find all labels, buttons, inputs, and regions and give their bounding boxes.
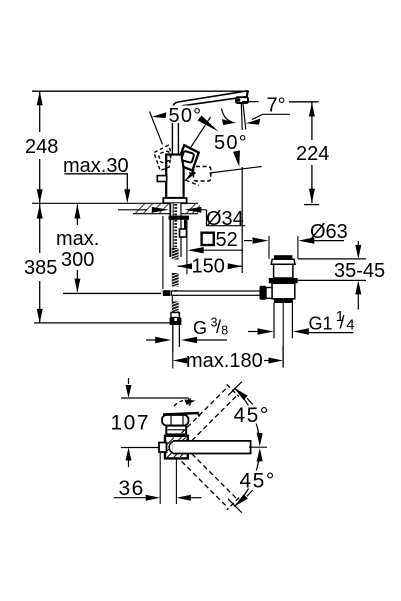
spout bottom edge (178, 97, 245, 109)
svg-text:Ø63: Ø63 (310, 221, 348, 243)
hose connector collar (171, 313, 179, 318)
plan centerline right of bar (249, 446, 267, 448)
faucet body (166, 155, 183, 199)
svg-text:Ø34: Ø34 (206, 208, 244, 230)
extension to max180 (172, 352, 174, 369)
label max.30 down arrow at counter (124, 189, 130, 203)
counter top line (32, 202, 198, 204)
107 bottom reference line (121, 447, 159, 449)
dimension 248 vertical line (39, 91, 41, 132)
Ø63 dimension arrows (244, 240, 252, 242)
Ø34 arrows at counter hole (118, 209, 147, 211)
hose G3/8 nut (170, 318, 182, 326)
right extension line from base plate (186, 217, 188, 274)
svg-text:36: 36 (119, 477, 145, 500)
leader arrow to body right edge (183, 171, 196, 183)
dashed spout -45 (down) (180, 451, 248, 519)
dimension max.300 bottom arrow (74, 279, 80, 293)
svg-text:7°: 7° (267, 95, 286, 117)
50 deg second label leader arrow (down to dashed lever) (233, 151, 240, 167)
dimension 150 line (178, 265, 191, 267)
45 deg upper arc (234, 388, 258, 434)
spout riser pipe (171, 107, 173, 155)
7 deg arc near spout (222, 109, 233, 123)
mounting nut (169, 216, 189, 220)
spout top edge (172, 91, 247, 108)
svg-text:150: 150 (192, 256, 225, 278)
7 deg dashes and text (242, 101, 259, 103)
threaded shank below base (170, 203, 182, 257)
svg-text:35-45: 35-45 (334, 260, 385, 282)
dimension 385 top arrow (37, 205, 43, 219)
svg-text:50°: 50° (214, 132, 248, 154)
svg-text:45°: 45° (234, 404, 270, 427)
drain cap trapezoid (271, 259, 295, 264)
hose below shank (172, 248, 179, 313)
G3/8 male pipe (172, 325, 174, 352)
svg-text:max.: max. (56, 228, 99, 250)
dashed spout +45 (up) (180, 375, 248, 443)
drain tailpipe (273, 303, 275, 338)
G3/8 label arrows (146, 339, 157, 341)
svg-text:max.180: max.180 (186, 350, 263, 372)
plan body hatch (167, 437, 186, 457)
plan body square (165, 436, 188, 459)
drain flange (black) (269, 278, 298, 283)
svg-text:G: G (193, 318, 207, 338)
dimension 224 bottom ref line (304, 204, 319, 206)
drain extension lines for Ø63 (268, 236, 270, 259)
svg-text:52: 52 (216, 229, 238, 251)
svg-text:248: 248 (25, 136, 58, 158)
rod end knob at drain (260, 286, 267, 300)
50 deg first label left arrow (152, 112, 167, 118)
7 deg right arrowhead (246, 119, 260, 125)
35-45 dimension arrows (357, 241, 359, 245)
counter hatch (135, 203, 201, 213)
dashed lever lower dashes (186, 180, 199, 185)
thin vertical line left of shank (pull rod) (162, 216, 164, 289)
extension line from spout tip (241, 167, 243, 273)
dimension 224 vertical line (311, 102, 313, 140)
dimension 385 bottom reference line (34, 322, 170, 324)
top reference line (spout top level) (32, 90, 249, 92)
dimension 385 bottom arrow (37, 309, 43, 323)
dashed lever axis line (210, 167, 262, 174)
7 deg right leader line (252, 114, 290, 119)
plan handle blade (163, 413, 199, 415)
aerator (236, 97, 248, 103)
handle dashed left position (154, 145, 171, 170)
dimension max.300 vertical line (76, 205, 78, 226)
pull rod vertical right of shank (184, 220, 186, 237)
dimension max.180 (173, 358, 188, 364)
svg-text:4: 4 (346, 316, 354, 333)
svg-text:/: / (216, 317, 221, 337)
plan handle dashes above (174, 399, 191, 406)
dimension 224 arrows (309, 103, 315, 117)
45 deg texts (233, 406, 269, 424)
spout end cap (246, 90, 249, 97)
drain side port (266, 288, 272, 299)
faucet left protrusion (157, 176, 166, 182)
plan handle neck (166, 426, 186, 435)
drain neck (274, 264, 293, 278)
107 top reference line (121, 397, 189, 399)
dimension 385 vertical line (39, 203, 41, 253)
svg-text:300: 300 (61, 249, 94, 271)
rod guide block (180, 229, 187, 237)
faucet base escutcheon (163, 198, 186, 203)
drain bottom black band (274, 299, 293, 303)
label max.30 leader underline (65, 174, 128, 190)
plan handle capsule (162, 415, 189, 426)
svg-text:224: 224 (296, 143, 329, 165)
36 extension lines (159, 453, 161, 505)
Ø34 label leader corner (207, 210, 246, 226)
svg-text:385: 385 (24, 257, 57, 279)
drain plug cap (274, 255, 292, 259)
plan spout pivot (169, 441, 173, 453)
G1 1/4 leader arrows (248, 331, 259, 333)
pop-up rod to drain (172, 291, 261, 295)
svg-text:107: 107 (111, 412, 151, 435)
shank thread texture (174, 204, 177, 257)
square-52 label (202, 233, 214, 245)
svg-text:50°: 50° (169, 105, 203, 127)
handle solid axis line (191, 117, 211, 147)
dimension max.300 top arrow (74, 205, 80, 219)
rod T-joint (163, 290, 171, 296)
counter bottom line (133, 213, 198, 215)
drain centerline (282, 303, 284, 368)
107 dimension arrows (128, 378, 130, 384)
50 deg first label right arrow (198, 116, 219, 132)
svg-text:/: / (340, 313, 345, 333)
drain body (272, 283, 295, 299)
plan left protrusion (159, 443, 167, 453)
plan spout bar (173, 441, 251, 454)
svg-text:8: 8 (221, 324, 228, 338)
water stream (240, 104, 243, 130)
handle dashed-left axis line (150, 112, 163, 145)
45 deg lower arc (234, 461, 258, 507)
dashed lever (front position) square (194, 167, 211, 182)
50 deg first label text (168, 106, 201, 124)
35-45 reference lines (298, 258, 366, 260)
handle solid (181, 145, 198, 170)
svg-text:45°: 45° (240, 470, 276, 493)
pop-up rod left part (63, 292, 161, 294)
7 deg arc arrowhead (222, 119, 236, 125)
36 dimension arrows (114, 497, 146, 499)
dimension 248 bottom arrow (37, 189, 43, 203)
dimension 248 top arrow (37, 91, 43, 105)
svg-text:G1: G1 (309, 313, 333, 333)
square-52 leader arrow to shank (201, 249, 243, 251)
